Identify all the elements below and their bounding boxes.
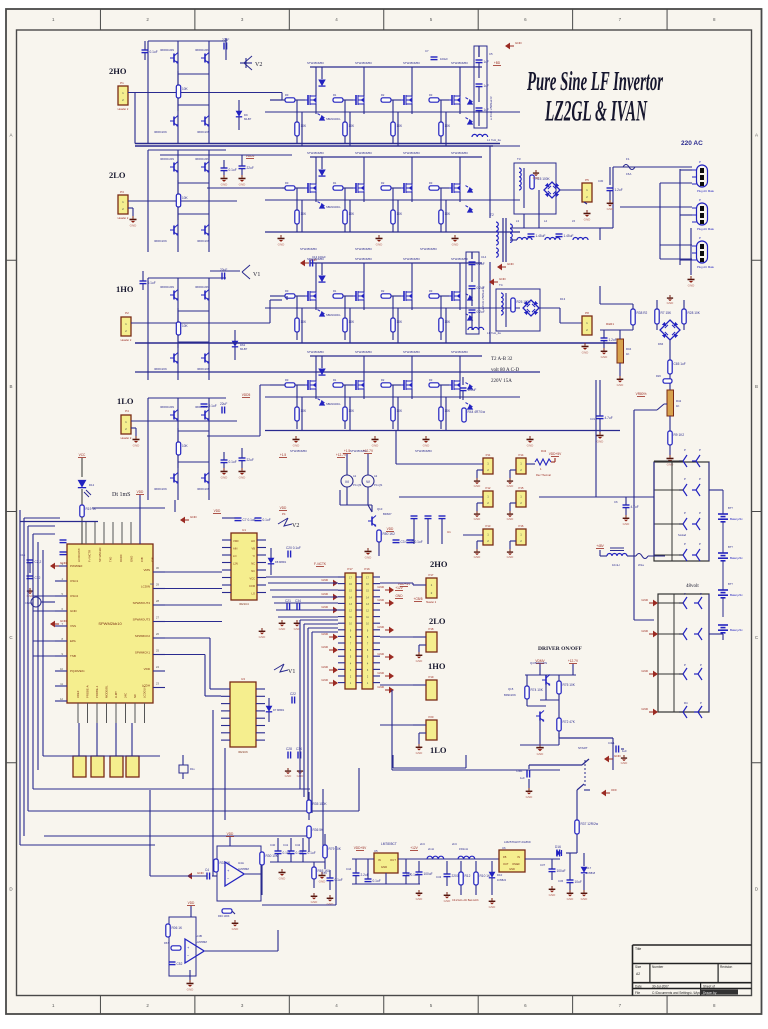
svg-text:GND: GND (641, 598, 649, 602)
svg-text:R4: R4 (684, 701, 688, 705)
svg-text:1K: 1K (626, 352, 630, 356)
svg-text:Batery/2v: Batery/2v (730, 556, 743, 560)
svg-text:R75 10K: R75 10K (563, 683, 576, 687)
svg-text:P: P (699, 198, 701, 202)
svg-text:4.7uF: 4.7uF (605, 416, 613, 420)
svg-text:P4: P4 (282, 512, 286, 516)
svg-text:P17: P17 (347, 567, 353, 571)
svg-text:1.45uF: 1.45uF (536, 234, 546, 238)
svg-text:PQ40VEKt: PQ40VEKt (70, 669, 85, 673)
svg-text:1.2uF: 1.2uF (615, 188, 623, 192)
svg-text:+12V: +12V (395, 586, 403, 590)
svg-text:STW45NM50: STW45NM50 (451, 350, 468, 354)
svg-text:2HO: 2HO (109, 66, 127, 76)
svg-text:1K: 1K (676, 404, 680, 408)
svg-text:W: W (366, 479, 370, 484)
svg-text:R1: R1 (333, 181, 337, 185)
svg-text:C55: C55 (322, 871, 327, 875)
svg-text:R72 47K: R72 47K (563, 720, 576, 724)
svg-text:A: A (9, 133, 12, 138)
svg-text:R7 15K: R7 15K (661, 311, 673, 315)
svg-text:GND: GND (221, 182, 229, 186)
svg-text:IN: IN (517, 855, 520, 859)
svg-text:P16: P16 (519, 524, 524, 528)
svg-text:U4A: U4A (238, 861, 244, 865)
svg-text:GND: GND (395, 594, 403, 598)
svg-text:GND: GND (377, 671, 385, 675)
svg-text:STW45NM50: STW45NM50 (403, 151, 420, 155)
svg-text:Soolad: Soolad (678, 533, 687, 537)
svg-text:C52: C52 (177, 962, 183, 966)
svg-text:C21: C21 (285, 599, 291, 603)
svg-text:VDD: VDD (214, 509, 221, 513)
svg-text:R0: R0 (285, 378, 289, 382)
svg-text:C65 1uF: C65 1uF (674, 362, 686, 366)
svg-text:L4: L4 (544, 219, 548, 223)
svg-text:1uF: 1uF (622, 749, 627, 753)
svg-text:VMS: VMS (143, 568, 150, 572)
svg-text:GND: GND (278, 242, 286, 246)
svg-text:A1: A1 (353, 474, 357, 478)
svg-text:P2: P2 (125, 311, 129, 315)
svg-text:IRFR9C20N: IRFR9C20N (160, 285, 174, 289)
svg-text:GND: GND (474, 555, 482, 559)
svg-text:R0: R0 (285, 93, 289, 97)
svg-text:GND: GND (377, 685, 385, 689)
svg-text:VCC: VCC (250, 577, 256, 581)
svg-text:STW45NM50: STW45NM50 (307, 151, 324, 155)
svg-text:IR21C4: IR21C4 (239, 602, 249, 606)
svg-text:LM2576HVT-DL869: LM2576HVT-DL869 (504, 840, 531, 844)
svg-text:R42: R42 (676, 399, 682, 403)
svg-text:GND: GND (187, 987, 195, 991)
svg-text:48volt: 48volt (686, 584, 699, 589)
svg-text:D8 MBR1: D8 MBR1 (275, 560, 287, 564)
svg-text:P13: P13 (486, 524, 491, 528)
svg-text:R&R1: R&R1 (606, 322, 614, 326)
svg-text:FB: FB (503, 855, 507, 859)
svg-text:F-/4CTK: F-/4CTK (314, 562, 327, 566)
svg-text:M: M (345, 479, 348, 484)
svg-text:GND: GND (130, 223, 138, 227)
svg-text:STW45NM50: STW45NM50 (355, 350, 372, 354)
svg-text:GND: GND (641, 707, 649, 711)
svg-text:STW45NM50: STW45NM50 (290, 449, 307, 453)
svg-text:IRFR9C20N: IRFR9C20N (160, 157, 174, 161)
svg-text:GND: GND (239, 475, 247, 479)
svg-text:C7: C7 (425, 49, 429, 53)
svg-text:C6: C6 (614, 500, 618, 504)
svg-text:GND: GND (688, 283, 696, 287)
svg-text:C/B: C/B (140, 557, 144, 562)
svg-text:220 AC: 220 AC (681, 140, 703, 147)
svg-text:PC-QS: PC-QS (353, 483, 361, 487)
svg-text:R2: R2 (381, 93, 385, 97)
svg-text:VCC: VCC (79, 453, 86, 457)
svg-text:GND: GND (321, 578, 329, 582)
svg-text:0.1uF: 0.1uF (263, 518, 271, 522)
svg-text:2nC: 2nC (420, 842, 425, 846)
svg-text:Header 2: Header 2 (118, 216, 129, 220)
svg-text:NC: NC (251, 562, 255, 566)
svg-text:GND: GND (581, 897, 589, 901)
svg-text:R74 10K: R74 10K (531, 688, 544, 692)
svg-text:1.2uF: 1.2uF (609, 338, 617, 342)
svg-text:B: B (9, 384, 12, 389)
svg-text:GND: GND (452, 242, 460, 246)
svg-text:R1: R1 (333, 93, 337, 97)
svg-text:Batery/2v: Batery/2v (730, 593, 743, 597)
svg-text:GND: GND (232, 927, 240, 931)
svg-text:R06 1K: R06 1K (172, 926, 184, 930)
svg-text:GND: GND (509, 867, 515, 871)
svg-text:STW45NM50: STW45NM50 (355, 247, 372, 251)
svg-text:STW45NM50: STW45NM50 (451, 151, 468, 155)
svg-text:GND: GND (321, 678, 329, 682)
svg-text:VR80%: VR80% (636, 392, 647, 396)
svg-text:GND: GND (221, 475, 229, 479)
svg-text:SPWMOUT4: SPWMOUT4 (133, 601, 151, 605)
svg-text:+BD: +BD (494, 61, 501, 65)
svg-text:Size: Size (635, 965, 641, 969)
svg-text:PC-QS: PC-QS (374, 483, 382, 487)
svg-text:LCDOU K: LCDOU K (143, 685, 147, 698)
svg-text:STW45NM50: STW45NM50 (355, 257, 372, 261)
svg-text:C/B: C/B (151, 557, 155, 562)
svg-text:LO: LO (252, 592, 255, 596)
svg-text:VDD: VDD (387, 527, 394, 531)
svg-text:IRFRC20N: IRFRC20N (154, 239, 167, 243)
svg-text:IRFRC20N: IRFRC20N (154, 130, 167, 134)
svg-text:2mH: 2mH (428, 847, 434, 851)
svg-text:R04: R04 (626, 347, 632, 351)
svg-text:C7 0.1uF: C7 0.1uF (243, 518, 256, 522)
svg-text:Number: Number (652, 965, 664, 969)
svg-text:P16: P16 (364, 567, 370, 571)
svg-text:1LO: 1LO (430, 745, 447, 755)
svg-text:1uF: 1uF (484, 84, 490, 88)
svg-text:OSC1: OSC1 (70, 579, 79, 583)
svg-text:Rec Thermal: Rec Thermal (536, 473, 551, 477)
svg-text:R2: R2 (381, 378, 385, 382)
svg-text:P: P (699, 448, 701, 452)
svg-text:C41: C41 (283, 843, 289, 847)
svg-text:10uF: 10uF (575, 880, 582, 884)
svg-text:R3: R3 (429, 181, 433, 185)
svg-text:C42: C42 (406, 872, 412, 876)
svg-text:4.7uF: 4.7uF (631, 505, 639, 509)
svg-text:0.1uF: 0.1uF (308, 851, 316, 855)
svg-text:C22: C22 (290, 692, 296, 696)
svg-text:R26: R26 (656, 374, 661, 378)
svg-text:R2: R2 (381, 289, 385, 293)
svg-text:OUT: OUT (390, 858, 396, 862)
svg-text:10K: 10K (182, 87, 189, 91)
svg-text:GND: GND (416, 897, 424, 901)
svg-text:Q4 BD9C20N: Q4 BD9C20N (530, 661, 547, 665)
svg-text:A2: A2 (636, 972, 640, 976)
svg-text:GND: GND (507, 484, 515, 488)
svg-text:GND: GND (444, 899, 452, 903)
svg-text:P1: P1 (120, 81, 124, 85)
svg-text:IRFRC20N: IRFRC20N (197, 239, 210, 243)
svg-text:Revision: Revision (720, 965, 732, 969)
svg-text:T2: T2 (490, 213, 494, 217)
svg-text:Header 2: Header 2 (121, 338, 132, 342)
svg-text:GND: GND (607, 207, 615, 211)
svg-text:GND: GND (597, 439, 605, 443)
svg-text:GND: GND (293, 443, 301, 447)
svg-text:C34: C34 (296, 747, 302, 751)
svg-text:10K: 10K (182, 444, 189, 448)
svg-text:P: P (684, 542, 686, 546)
svg-text:IR21C6: IR21C6 (238, 750, 248, 754)
svg-text:100uF: 100uF (424, 872, 433, 876)
svg-text:STW45NM50: STW45NM50 (415, 449, 432, 453)
svg-text:GND: GND (526, 795, 534, 799)
svg-text:Drawn by: Drawn by (703, 991, 717, 995)
svg-text:R1: R1 (333, 289, 337, 293)
svg-text:MODE/BL: MODE/BL (105, 685, 109, 698)
svg-text:P8: P8 (585, 311, 589, 315)
svg-text:SBM1040CL: SBM1040CL (326, 117, 341, 121)
svg-text:STW45NM50: STW45NM50 (420, 247, 437, 251)
svg-text:D17: D17 (586, 866, 592, 870)
svg-text:0.1uF: 0.1uF (150, 50, 158, 54)
svg-text:GND: GND (533, 176, 541, 180)
svg-text:+1.5: +1.5 (344, 449, 351, 453)
svg-text:GND: GND (601, 355, 609, 359)
svg-text:LCDOUT/F: LCDOUT/F (77, 548, 81, 562)
svg-text:GND: GND (537, 752, 545, 756)
svg-text:NC: NC (133, 694, 137, 698)
svg-text:GND: GND (133, 443, 141, 447)
svg-text:GND: GND (416, 659, 424, 663)
svg-text:22uF: 22uF (247, 458, 254, 462)
svg-text:R12: R12 (465, 874, 471, 878)
svg-text:OSC2: OSC2 (70, 594, 79, 598)
svg-text:GND: GND (489, 905, 497, 909)
svg-text:V1: V1 (253, 272, 260, 278)
svg-text:VDD: VDD (137, 490, 144, 494)
svg-text:LO: LO (233, 554, 236, 558)
svg-text:GND: GND (641, 629, 649, 633)
svg-text:R30 10K: R30 10K (266, 854, 279, 858)
svg-text:GND: GND (279, 876, 287, 880)
svg-text:VB: VB (252, 547, 256, 551)
svg-text:YI: YI (253, 554, 256, 558)
svg-text:Date: Date (635, 984, 642, 988)
svg-text:C4k1: C4k1 (608, 741, 615, 745)
svg-text:GND: GND (197, 871, 205, 875)
svg-text:BD9C20N: BD9C20N (504, 693, 516, 697)
svg-text:VDD: VDD (188, 901, 195, 905)
svg-text:R2: R2 (381, 181, 385, 185)
svg-text:volt 80 A C-D: volt 80 A C-D (491, 368, 520, 373)
svg-text:P15: P15 (519, 486, 524, 490)
svg-text:SPWM2kb10: SPWM2kb10 (98, 621, 122, 626)
svg-text:P3: P3 (120, 190, 124, 194)
svg-text:OUT: OUT (503, 862, 509, 866)
svg-text:R31 1K: R31 1K (220, 861, 232, 865)
svg-text:GND: GND (621, 761, 629, 765)
svg-text:LCDIN: LCDIN (141, 585, 150, 589)
svg-text:ON/EF: ON/EF (512, 862, 520, 866)
svg-text:L3: L3 (516, 219, 520, 223)
svg-text:GND: GND (549, 893, 557, 897)
svg-text:1LO: 1LO (117, 396, 134, 406)
svg-text:C41/1uC+Cb BaL1uCb: C41/1uC+Cb BaL1uCb (452, 898, 479, 902)
svg-text:C42: C42 (295, 843, 301, 847)
svg-text:C5: C5 (489, 52, 493, 56)
svg-text:GND: GND (582, 350, 590, 354)
svg-text:Plug AC Male: Plug AC Male (697, 227, 714, 231)
svg-text:P20: P20 (429, 715, 434, 719)
svg-text:C37: C37 (540, 863, 546, 867)
svg-text:STW45NM50: STW45NM50 (403, 350, 420, 354)
svg-text:R1s: R1s (190, 767, 195, 771)
svg-text:STW45NM50: STW45NM50 (355, 151, 372, 155)
svg-text:GND: GND (623, 522, 631, 526)
svg-text:U1: U1 (242, 528, 246, 532)
svg-text:Title: Title (635, 947, 641, 951)
svg-text:RXD0: RXD0 (119, 554, 123, 562)
svg-text:VDD: VDD (280, 506, 287, 510)
svg-text:GND: GND (584, 217, 592, 221)
svg-text:IRFR9C20N: IRFR9C20N (195, 157, 209, 161)
svg-text:GND: GND (416, 751, 424, 755)
svg-text:COM: COM (249, 584, 255, 588)
svg-text:VDD: VDD (227, 832, 234, 836)
svg-text:P: P (684, 448, 686, 452)
svg-text:100uF: 100uF (440, 57, 448, 61)
svg-text:1uF: 1uF (484, 60, 490, 64)
svg-text:IRFRC20N: IRFRC20N (154, 487, 167, 491)
svg-text:Q15: Q15 (508, 687, 514, 691)
svg-text:U3: U3 (241, 677, 245, 681)
svg-text:1.45uF: 1.45uF (564, 234, 574, 238)
svg-text:D7 MBR1: D7 MBR1 (273, 708, 285, 712)
svg-text:U4B: U4B (196, 934, 202, 938)
svg-text:C4k1: C4k1 (516, 769, 523, 773)
svg-text:LM358M: LM358M (238, 867, 250, 871)
svg-text:GND: GND (614, 754, 622, 758)
svg-text:BT?: BT? (728, 582, 733, 586)
svg-text:GND: GND (499, 277, 507, 281)
svg-text:C40: C40 (270, 843, 276, 847)
svg-text:F-/-NCTR: F-/-NCTR (88, 550, 92, 562)
svg-text:T4: T4 (499, 283, 503, 287)
svg-text:GND: GND (321, 605, 329, 609)
svg-text:BD667: BD667 (383, 512, 392, 516)
svg-text:D16: D16 (555, 845, 561, 849)
svg-text:File: File (635, 991, 640, 995)
svg-text:P4: P4 (125, 409, 129, 413)
svg-text:SPWMCK2: SPWMCK2 (135, 634, 151, 638)
svg-text:+12V: +12V (410, 846, 418, 850)
svg-text:GND: GND (377, 652, 385, 656)
svg-text:L2N: L2N (233, 562, 238, 566)
svg-text:Batery/2v: Batery/2v (730, 628, 743, 632)
svg-text:TSB: TSB (70, 654, 76, 658)
svg-text:D66: D66 (658, 342, 664, 346)
svg-text:SPWMCK1: SPWMCK1 (135, 651, 151, 655)
svg-text:D10: D10 (497, 873, 503, 877)
svg-text:P18: P18 (429, 627, 434, 631)
svg-text:GND: GND (381, 865, 387, 869)
svg-text:Header 2: Header 2 (118, 107, 129, 111)
svg-text:IRFR9C20N: IRFR9C20N (195, 48, 209, 52)
svg-text:P17: P17 (429, 573, 434, 577)
svg-text:2LO: 2LO (429, 616, 446, 626)
svg-text:P14: P14 (519, 453, 524, 457)
svg-text:R37 12R/2w: R37 12R/2w (581, 822, 599, 826)
svg-text:IN: IN (378, 858, 381, 862)
svg-text:110uF: 110uF (468, 388, 477, 392)
svg-text:SPWMOUT3: SPWMOUT3 (133, 618, 151, 622)
svg-text:GND: GND (507, 262, 515, 266)
svg-text:VDD+5V: VDD+5V (549, 452, 562, 456)
svg-text:Header 2: Header 2 (121, 436, 132, 440)
svg-text:IRFR9C20N: IRFR9C20N (160, 405, 174, 409)
svg-text:A2: A2 (374, 474, 378, 478)
svg-text:OFF: OFF (611, 788, 617, 792)
svg-text:V2: V2 (255, 62, 262, 68)
svg-text:HO: HO (251, 539, 255, 543)
svg-text:2HO: 2HO (430, 559, 448, 569)
svg-text:P12: P12 (486, 486, 491, 490)
svg-text:R35 100K: R35 100K (313, 802, 328, 806)
svg-text:0.1uF: 0.1uF (373, 879, 381, 883)
svg-text:Batery/2v: Batery/2v (730, 517, 743, 521)
svg-text:R28 10K: R28 10K (688, 311, 701, 315)
svg-text:A-MY: A-MY (114, 691, 118, 698)
svg-text:0.1uF: 0.1uF (415, 540, 423, 544)
svg-text:T3: T3 (517, 157, 521, 161)
svg-text:R36 5K: R36 5K (313, 828, 325, 832)
svg-text:GND: GND (321, 632, 329, 636)
svg-text:STW45NM50: STW45NM50 (403, 257, 420, 261)
svg-text:1uF: 1uF (520, 776, 525, 780)
svg-text:P: P (699, 511, 701, 515)
svg-text:2LO: 2LO (109, 170, 126, 180)
svg-text:R79 10K: R79 10K (329, 847, 342, 851)
svg-text:GND: GND (311, 900, 319, 904)
svg-text:+48V: +48V (596, 544, 604, 548)
svg-text:30-Jul-2007: 30-Jul-2007 (652, 984, 669, 988)
svg-text:C34: C34 (295, 599, 301, 603)
svg-text:P: P (700, 701, 702, 705)
svg-text:P: P (699, 542, 701, 546)
svg-text:P: P (699, 236, 701, 240)
svg-text:C43: C43 (436, 875, 442, 879)
svg-text:220V 15A: 220V 15A (491, 379, 512, 384)
svg-text:B: B (755, 384, 758, 389)
svg-text:R50 1K2: R50 1K2 (383, 532, 396, 536)
svg-text:Header 2: Header 2 (426, 601, 437, 604)
svg-text:C28: C28 (286, 747, 292, 751)
svg-text:C20 0.1uF: C20 0.1uF (286, 546, 301, 550)
svg-text:VDD+5V: VDD+5V (354, 846, 367, 850)
svg-text:GND: GND (527, 443, 535, 447)
svg-text:LM7805CT: LM7805CT (381, 842, 397, 846)
svg-text:IRFR9C20N: IRFR9C20N (160, 48, 174, 52)
svg-text:Plug AC Male: Plug AC Male (697, 189, 714, 193)
svg-text:1N5822: 1N5822 (497, 878, 507, 882)
svg-text:C44: C44 (346, 867, 352, 871)
svg-text:SBM1040CL: SBM1040CL (326, 402, 341, 406)
svg-text:GND: GND (474, 484, 482, 488)
